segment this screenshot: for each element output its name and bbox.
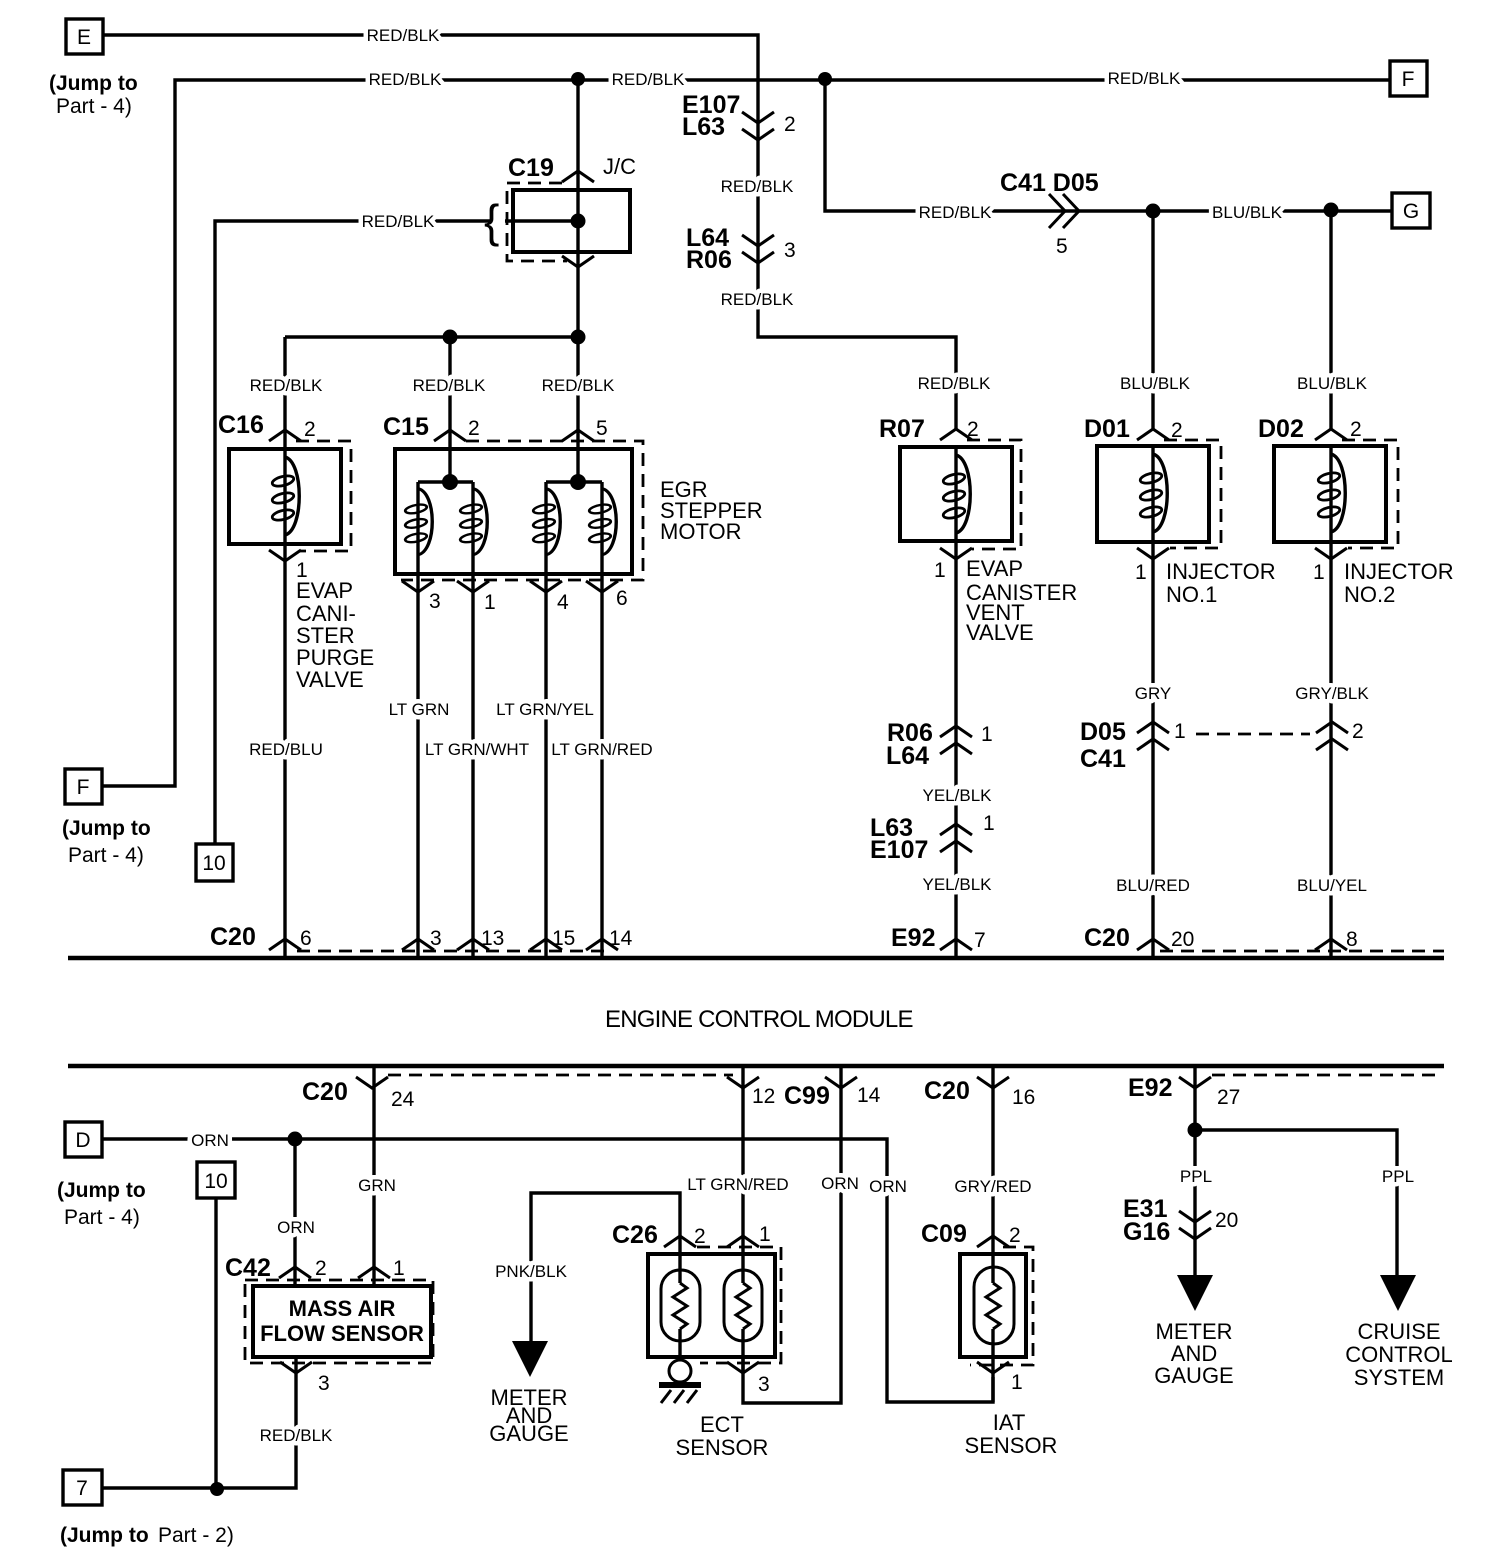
svg-text:VALVE: VALVE — [296, 667, 364, 692]
pin chevron C19 top — [562, 171, 594, 182]
junction dot inside C19 — [571, 214, 586, 229]
svg-text:2: 2 — [694, 1225, 706, 1248]
pin chevron E92 pin 27 — [1179, 1077, 1211, 1088]
wire YEL/BLK R07 pin 1 to E92 pin 7 — [954, 541, 957, 958]
wire LT GRN/YEL C15 pin 4 to C20 pin 15 — [544, 574, 547, 958]
svg-text:RED/BLK: RED/BLK — [413, 376, 486, 395]
wire PPL branch to cruise control arrow — [1195, 1130, 1397, 1276]
injector no.1 D01 box — [1097, 446, 1209, 542]
pin chevron R07 pin 2 — [940, 429, 972, 440]
svg-text:MASS AIR: MASS AIR — [289, 1296, 396, 1321]
connector symbol E107/L63 on RED/BLK — [742, 112, 774, 140]
svg-text:10: 10 — [202, 852, 225, 875]
ECT sensor C26 box — [648, 1254, 775, 1357]
zigzag resistor ECT B — [736, 1283, 750, 1329]
wire GRN C20 pin 24 to MAF pin 1 — [372, 1066, 375, 1286]
svg-text:1: 1 — [1174, 720, 1186, 743]
svg-text:7: 7 — [974, 929, 986, 952]
svg-text:GRY/BLK: GRY/BLK — [1295, 684, 1369, 703]
svg-text:3: 3 — [430, 927, 442, 950]
svg-text:D05: D05 — [1080, 718, 1126, 746]
thermistor pill of IAT C09 — [974, 1267, 1014, 1344]
svg-text:BLU/YEL: BLU/YEL — [1297, 876, 1367, 895]
svg-text:LT GRN/WHT: LT GRN/WHT — [425, 740, 529, 759]
svg-text:GAUGE: GAUGE — [1154, 1363, 1233, 1388]
svg-text:ORN: ORN — [191, 1131, 229, 1150]
svg-text:2: 2 — [1352, 720, 1364, 743]
svg-text:1: 1 — [981, 723, 993, 746]
svg-text:Part - 4): Part - 4) — [68, 844, 144, 867]
coil of C16 purge valve — [283, 449, 286, 544]
connector D01 dashed outline — [1164, 440, 1221, 548]
ECM bus dashed connector edge top — [297, 950, 1444, 953]
svg-text:(Jump to: (Jump to — [60, 1524, 149, 1547]
pin chevron C15 pin 1 — [457, 581, 489, 592]
svg-text:BLU/BLK: BLU/BLK — [1212, 203, 1283, 222]
svg-text:1: 1 — [393, 1257, 405, 1280]
ECT interior wires — [680, 1254, 743, 1373]
svg-text:E92: E92 — [1128, 1074, 1172, 1102]
jump box F top right — [1390, 61, 1427, 96]
svg-text:3: 3 — [429, 590, 441, 613]
svg-text:15: 15 — [552, 927, 575, 950]
pin chevron C20 pin 3 — [402, 939, 434, 950]
coil D of EGR stepper motor — [588, 489, 616, 555]
wire RED/BLK branch C19 feed from junction box 10 — [215, 221, 490, 844]
wire BLU/BLK drop to injector D01 — [1151, 211, 1154, 429]
connector symbol L64/R06 on RED/BLK — [742, 235, 774, 263]
wire RED/BLK C15 pin 5 drop — [576, 252, 579, 449]
wire BLU/BLK drop to injector D02 — [1329, 210, 1332, 429]
connector C15 dashed outline — [401, 441, 643, 580]
thermistor pill A of ECT C26 — [661, 1270, 700, 1341]
svg-text:G: G — [1403, 200, 1419, 223]
svg-text:3: 3 — [758, 1373, 770, 1396]
jump box 10 bottom section — [197, 1162, 235, 1198]
svg-text:1: 1 — [983, 812, 995, 835]
svg-text:CRUISE: CRUISE — [1357, 1319, 1440, 1344]
svg-text:RED/BLU: RED/BLU — [249, 740, 323, 759]
svg-text:LT GRN/RED: LT GRN/RED — [687, 1175, 788, 1194]
evap canister vent valve R07 box — [900, 447, 1012, 541]
svg-text:RED/BLK: RED/BLK — [612, 70, 685, 89]
svg-text:LT GRN/RED: LT GRN/RED — [551, 740, 652, 759]
pin chevron MAF pin 3 — [280, 1362, 312, 1373]
junction dot EGR coil pair B — [570, 474, 586, 490]
svg-text:PPL: PPL — [1180, 1167, 1212, 1186]
svg-text:RED/BLK: RED/BLK — [721, 177, 794, 196]
svg-text:5: 5 — [596, 417, 608, 440]
svg-text:BLU/BLK: BLU/BLK — [1297, 374, 1368, 393]
svg-text:ENGINE CONTROL MODULE: ENGINE CONTROL MODULE — [605, 1006, 913, 1033]
svg-text:RED/BLK: RED/BLK — [919, 203, 992, 222]
wire PPL E92 pin 27 to meter arrow — [1193, 1066, 1196, 1276]
ECM bus line bottom — [68, 1064, 1444, 1069]
wire LT GRN/RED C99 pin 12 to ECT pin 1 — [741, 1066, 744, 1254]
wire RED/BLK C16 pin 2 drop — [283, 337, 286, 449]
svg-text:EVAP: EVAP — [966, 556, 1023, 581]
svg-text:RED/BLK: RED/BLK — [1108, 69, 1181, 88]
pin chevron MAF pin 2 — [279, 1267, 311, 1278]
ground symbol at ECT — [659, 1360, 701, 1403]
thermistor pill B of ECT C26 — [724, 1270, 762, 1341]
svg-text:C20: C20 — [1084, 924, 1130, 952]
svg-text:1: 1 — [759, 1223, 771, 1246]
svg-text:RED/BLK: RED/BLK — [250, 376, 323, 395]
svg-text:MOTOR: MOTOR — [660, 519, 741, 544]
svg-text:SYSTEM: SYSTEM — [1354, 1365, 1444, 1390]
svg-text:D02: D02 — [1258, 415, 1304, 443]
svg-text:C42: C42 — [225, 1254, 271, 1282]
svg-text:LT GRN: LT GRN — [389, 700, 450, 719]
wire GRY/RED C20 pin 16 to IAT pin 2 — [991, 1066, 994, 1254]
svg-text:27: 27 — [1217, 1086, 1240, 1109]
svg-text:L63: L63 — [682, 113, 725, 141]
svg-text:LT GRN/YEL: LT GRN/YEL — [496, 700, 594, 719]
svg-text:INJECTOR: INJECTOR — [1344, 559, 1454, 584]
pin chevron ECT pin 2 — [664, 1236, 696, 1247]
svg-text:20: 20 — [1171, 928, 1194, 951]
svg-text:2: 2 — [1171, 419, 1183, 442]
svg-text:16: 16 — [1012, 1086, 1035, 1109]
wire RED/BLU C16 pin 1 to C20 pin 6 — [283, 544, 286, 958]
svg-text:RED/BLK: RED/BLK — [362, 212, 435, 231]
svg-text:13: 13 — [481, 927, 504, 950]
svg-text:1: 1 — [934, 559, 946, 582]
svg-text:C26: C26 — [612, 1221, 658, 1249]
wire RED/BLK C15 pin 2 drop — [448, 337, 451, 449]
wire LT GRN/RED C15 pin 6 to C20 pin 14 — [600, 574, 603, 958]
connector C16 dashed outline — [296, 441, 351, 551]
svg-text:RED/BLK: RED/BLK — [542, 376, 615, 395]
svg-text:ORN: ORN — [869, 1177, 907, 1196]
pin chevron C19 bottom — [562, 256, 594, 267]
coil A of EGR stepper motor — [404, 489, 432, 555]
wire into C19 from brace — [505, 219, 578, 222]
svg-text:8: 8 — [1346, 928, 1358, 951]
svg-text:6: 6 — [616, 587, 628, 610]
dashed link D05/C41 pin1 to pin2 — [1196, 733, 1310, 736]
svg-text:GAUGE: GAUGE — [489, 1421, 568, 1446]
arrow to cruise control system — [1380, 1275, 1416, 1311]
wire RED/BLK from E through E107/L63 down to R07 pin 2 — [103, 35, 956, 429]
pin chevron C20 pin 8 — [1315, 939, 1347, 950]
svg-text:C99: C99 — [784, 1082, 830, 1110]
svg-text:GRY/RED: GRY/RED — [954, 1177, 1031, 1196]
junction block C19 box — [513, 190, 630, 252]
pin chevron C20 pin 14 — [586, 939, 618, 950]
connector symbol D05/C41 pin 2 — [1316, 722, 1348, 750]
svg-text:RED/BLK: RED/BLK — [721, 290, 794, 309]
svg-text:(Jump to: (Jump to — [49, 72, 138, 95]
pin chevron D01 pin 2 — [1137, 429, 1169, 440]
svg-text:3: 3 — [784, 239, 796, 262]
pin chevron E92 pin 7 — [940, 939, 972, 950]
pin chevron R07 pin 1 — [940, 548, 972, 559]
pin chevron C20 pin 16 — [977, 1077, 1009, 1088]
pin chevron C20 pin 13 — [457, 939, 489, 950]
junction dot F line x C19 riser — [571, 72, 585, 86]
wire bus RED/BLK over C16/C15 — [285, 335, 578, 338]
pin chevron C20 pin 20 — [1137, 939, 1169, 950]
pin chevron ECT pin 1 — [727, 1236, 759, 1247]
svg-text:(Jump to: (Jump to — [57, 1179, 146, 1202]
wire LT GRN C15 pin 3 to C20 pin 3 — [416, 574, 419, 958]
pin chevron C15 pin 2 — [434, 430, 466, 441]
wire LT GRN/WHT C15 pin 1 to C20 pin 13 — [471, 574, 474, 958]
IAT sensor C09 box — [960, 1254, 1026, 1357]
svg-text:C20: C20 — [210, 923, 256, 951]
svg-text:2: 2 — [967, 418, 979, 441]
svg-text:C16: C16 — [218, 411, 264, 439]
svg-text:1: 1 — [1011, 1371, 1023, 1394]
svg-text:D: D — [75, 1129, 90, 1152]
mass air flow sensor box — [253, 1286, 431, 1357]
svg-text:ECT: ECT — [700, 1412, 744, 1437]
injector no.2 D02 box — [1274, 446, 1386, 542]
svg-text:IAT: IAT — [993, 1410, 1026, 1435]
connector symbol E31/G16 on PPL — [1179, 1211, 1211, 1239]
arrow to meter and gauge left — [512, 1341, 548, 1377]
pin chevron C15 pin 5 — [562, 430, 594, 441]
svg-text:Part - 4): Part - 4) — [64, 1206, 140, 1229]
connector C19 dashed outline — [507, 183, 567, 261]
connector symbol D05/C41 pin 1 — [1137, 722, 1169, 750]
coil of R07 vent valve — [954, 447, 957, 541]
zigzag resistor IAT — [986, 1283, 1000, 1329]
jump box 7 — [63, 1470, 102, 1505]
jump box E — [66, 19, 103, 54]
coil of injector D02 — [1329, 446, 1332, 542]
junction dot PPL branch — [1188, 1123, 1203, 1138]
wire GRY BLU/RED D01 pin 1 to C20 pin 20 — [1151, 542, 1154, 958]
svg-text:14: 14 — [609, 927, 633, 950]
svg-text:1: 1 — [1135, 561, 1147, 584]
connector D02 dashed outline — [1342, 440, 1398, 548]
connector C26 dashed outline — [697, 1247, 781, 1363]
svg-text:GRY: GRY — [1135, 684, 1172, 703]
pin chevron C15 pin 4 — [530, 581, 562, 592]
junction dot F line x G branch — [818, 72, 832, 86]
connector R07 dashed outline — [967, 440, 1021, 549]
junction dot bus337 to C15 pin2 — [443, 330, 458, 345]
zigzag resistor ECT A — [673, 1283, 687, 1329]
svg-text:C19: C19 — [508, 154, 554, 182]
junction dot EGR coil pair A — [442, 474, 458, 490]
connector symbol L63/E107 on YEL/BLK — [940, 824, 972, 852]
svg-text:F: F — [1402, 68, 1415, 91]
svg-text:NO.2: NO.2 — [1344, 582, 1395, 607]
svg-text:2: 2 — [315, 1257, 327, 1280]
wire through C19 junction box — [576, 79, 579, 252]
svg-text:ORN: ORN — [277, 1218, 315, 1237]
svg-text:C41: C41 — [1080, 745, 1126, 773]
svg-text:J/C: J/C — [603, 154, 636, 179]
svg-text:4: 4 — [557, 591, 569, 614]
arrow to meter and gauge right — [1177, 1275, 1213, 1311]
svg-text:E107: E107 — [870, 836, 928, 864]
jump box G — [1392, 193, 1430, 228]
svg-text:FLOW SENSOR: FLOW SENSOR — [260, 1321, 424, 1346]
pin chevron C16 pin 1 — [269, 550, 301, 561]
jump box F lower left — [65, 769, 102, 804]
svg-text:{: { — [484, 195, 499, 247]
svg-text:3: 3 — [318, 1372, 330, 1395]
wire GRY/BLK BLU/YEL D02 pin 1 to C20 pin 8 — [1329, 542, 1332, 958]
svg-text:RED/BLK: RED/BLK — [367, 26, 440, 45]
pin chevron C99 pin 12 — [727, 1077, 759, 1088]
svg-text:2: 2 — [468, 417, 480, 440]
svg-text:E92: E92 — [891, 924, 935, 952]
svg-text:ORN: ORN — [821, 1174, 859, 1193]
svg-text:EVAP: EVAP — [296, 578, 353, 603]
svg-text:1: 1 — [1313, 561, 1325, 584]
IAT interior wires — [991, 1254, 994, 1402]
svg-text:GRN: GRN — [358, 1176, 396, 1195]
connector C09 dashed outline — [970, 1247, 1033, 1365]
wire RED/BLK box 7 to MAF pin 3 — [102, 1357, 296, 1488]
svg-text:YEL/BLK: YEL/BLK — [923, 786, 993, 805]
pin chevron C20 pin 24 — [356, 1077, 388, 1088]
pin chevron D02 pin 1 — [1315, 548, 1347, 559]
svg-text:1: 1 — [484, 591, 496, 614]
wire RED/BLK branch to G row with BLU/BLK segments — [825, 79, 1392, 211]
jump box D — [65, 1122, 102, 1157]
svg-text:(Jump to: (Jump to — [62, 817, 151, 840]
C15 interior wiring — [418, 449, 602, 574]
pin chevron IAT pin 2 — [977, 1236, 1009, 1247]
svg-text:6: 6 — [300, 927, 312, 950]
svg-text:C20: C20 — [924, 1077, 970, 1105]
svg-text:10: 10 — [204, 1170, 227, 1193]
pin chevron MAF pin 1 — [358, 1267, 390, 1278]
pin chevron C15 pin 6 — [586, 581, 618, 592]
pin chevron ECT pin 3 — [727, 1362, 759, 1373]
pin chevron D02 pin 2 — [1315, 429, 1347, 440]
wire ORN ECT pin 3 loop to C99 pin 14 — [743, 1066, 841, 1403]
svg-text:2: 2 — [1009, 1224, 1021, 1247]
ECM bus dashed connector edge bottom — [388, 1074, 1442, 1077]
EGR stepper motor C15 box — [395, 449, 632, 574]
junction dot box 7 line — [210, 1482, 224, 1496]
svg-text:RED/BLK: RED/BLK — [260, 1426, 333, 1445]
svg-text:R07: R07 — [879, 415, 925, 443]
svg-text:2: 2 — [304, 418, 316, 441]
svg-text:C15: C15 — [383, 413, 429, 441]
wire ORN from D box to IAT pin 1 loop — [102, 1139, 993, 1402]
svg-text:BLU/BLK: BLU/BLK — [1120, 374, 1191, 393]
wire RED/BLK from F riser across top to F box — [102, 80, 1390, 786]
svg-text:Part - 4): Part - 4) — [56, 95, 132, 118]
pin chevron D01 pin 1 — [1137, 548, 1169, 559]
svg-text:D01: D01 — [1084, 415, 1130, 443]
jump box 10 top section — [196, 844, 233, 881]
connector symbol C41 D05 on G branch — [1049, 194, 1079, 228]
ECM bus line top — [68, 956, 1444, 961]
svg-text:RED/BLK: RED/BLK — [918, 374, 991, 393]
svg-text:C20: C20 — [302, 1078, 348, 1106]
svg-text:5: 5 — [1056, 235, 1068, 258]
svg-text:7: 7 — [76, 1477, 88, 1500]
svg-text:24: 24 — [391, 1088, 415, 1111]
svg-text:14: 14 — [857, 1084, 881, 1107]
svg-text:R06: R06 — [686, 246, 732, 274]
pin chevron C15 pin 3 — [402, 581, 434, 592]
junction dot BLU/BLK to D01 — [1146, 204, 1161, 219]
svg-text:E: E — [77, 26, 91, 49]
svg-text:20: 20 — [1215, 1209, 1238, 1232]
svg-text:CONTROL: CONTROL — [1345, 1342, 1453, 1367]
svg-text:YEL/BLK: YEL/BLK — [923, 875, 993, 894]
evap canister purge valve C16 box — [229, 449, 341, 544]
junction dot bus337 to C15 pin5 — [571, 330, 586, 345]
connector C42 dashed outline — [245, 1280, 433, 1363]
svg-text:BLU/RED: BLU/RED — [1116, 876, 1190, 895]
svg-text:SENSOR: SENSOR — [676, 1435, 769, 1460]
svg-text:VALVE: VALVE — [966, 620, 1034, 645]
svg-text:C41 D05: C41 D05 — [1000, 169, 1099, 197]
svg-text:Part - 2): Part - 2) — [158, 1524, 234, 1547]
coil B of EGR stepper motor — [459, 489, 487, 555]
svg-text:PPL: PPL — [1382, 1167, 1414, 1186]
svg-text:INJECTOR: INJECTOR — [1166, 559, 1276, 584]
svg-text:2: 2 — [1350, 418, 1362, 441]
wire PNK/BLK meter branch and ECT pin 2 feed — [531, 1193, 680, 1345]
pin chevron C20 pin 6 — [269, 939, 301, 950]
svg-text:C09: C09 — [921, 1220, 967, 1248]
svg-text:12: 12 — [752, 1085, 775, 1108]
wire from bottom box 10 down to box 7 line — [214, 1198, 217, 1489]
connector symbol R06/L64 on YEL/BLK — [940, 726, 972, 754]
pin chevron C20 pin 15 — [530, 939, 562, 950]
coil C of EGR stepper motor — [532, 489, 560, 555]
junction dot ORN to MAF pin 2 — [288, 1132, 303, 1147]
coil of injector D01 — [1151, 446, 1154, 542]
svg-text:PNK/BLK: PNK/BLK — [495, 1262, 567, 1281]
junction dot BLU/BLK to D02 — [1324, 203, 1339, 218]
svg-text:RED/BLK: RED/BLK — [369, 70, 442, 89]
svg-text:2: 2 — [784, 113, 796, 136]
svg-text:SENSOR: SENSOR — [965, 1433, 1058, 1458]
pin chevron C16 pin 2 — [269, 430, 301, 441]
svg-text:L64: L64 — [886, 742, 929, 770]
wire ORN branch to MAF pin 2 — [293, 1139, 296, 1286]
svg-text:F: F — [77, 776, 90, 799]
svg-text:NO.1: NO.1 — [1166, 582, 1217, 607]
pin chevron C99 pin 14 — [825, 1077, 857, 1088]
svg-text:G16: G16 — [1123, 1218, 1170, 1246]
pin chevron IAT pin 1 — [977, 1362, 1009, 1373]
